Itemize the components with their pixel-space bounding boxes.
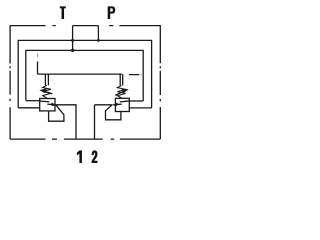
port T riser	[72, 26, 74, 51]
label 2	[92, 150, 98, 163]
valve V1 spring adjust arrow	[42, 91, 52, 94]
manifold chain border bottom	[10, 138, 160, 140]
valve V1 flow arrow	[40, 101, 56, 105]
manifold chain border right	[159, 25, 161, 139]
junction dot T/P cross	[71, 39, 74, 42]
junction dot T end	[71, 49, 74, 52]
valve V1 bypass box	[49, 105, 64, 121]
valve V2 spring adjust arrow	[115, 90, 125, 95]
junction dot P end	[97, 39, 100, 42]
valve V1 body	[40, 99, 55, 111]
pilot drain cap line	[38, 73, 122, 75]
T stub to left valve	[26, 100, 40, 102]
label 1	[77, 150, 82, 163]
P stub to left valve	[18, 107, 40, 109]
valve V2 stem	[120, 74, 123, 85]
port 2 line	[95, 105, 113, 139]
port P riser	[97, 26, 99, 41]
label T	[60, 6, 66, 19]
P stub to right valve	[129, 107, 151, 109]
T channel loop	[26, 50, 143, 101]
valve V2 body	[115, 98, 129, 111]
pilot riser left (dashed)	[37, 62, 39, 75]
valve V2 flow arrow	[114, 101, 130, 105]
valve V2 spring	[117, 86, 125, 99]
label P	[108, 6, 116, 19]
valve V2 bypass box	[106, 105, 121, 120]
valve V1 spring	[43, 85, 51, 98]
manifold chain border top	[10, 25, 160, 27]
P channel loop	[18, 40, 151, 108]
T stub to right valve	[129, 100, 143, 102]
port 1 line	[55, 105, 76, 139]
manifold chain border left	[9, 25, 11, 139]
pilot dash right	[129, 74, 139, 76]
valve V1 stem	[45, 74, 48, 85]
